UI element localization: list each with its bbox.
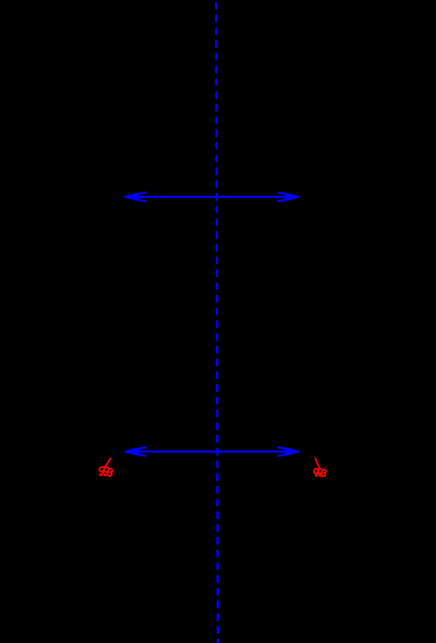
lower arrow left head — [126, 447, 145, 456]
upper arrow right head — [278, 193, 298, 202]
left red squiggle annotation — [99, 459, 112, 476]
dashed vertical axis line — [216, 0, 218, 643]
upper double arrow shaft — [127, 196, 297, 198]
upper arrow left head — [126, 193, 146, 202]
lower double arrow shaft — [127, 451, 297, 453]
lower arrow right head — [278, 447, 298, 456]
right red squiggle annotation — [314, 458, 326, 476]
